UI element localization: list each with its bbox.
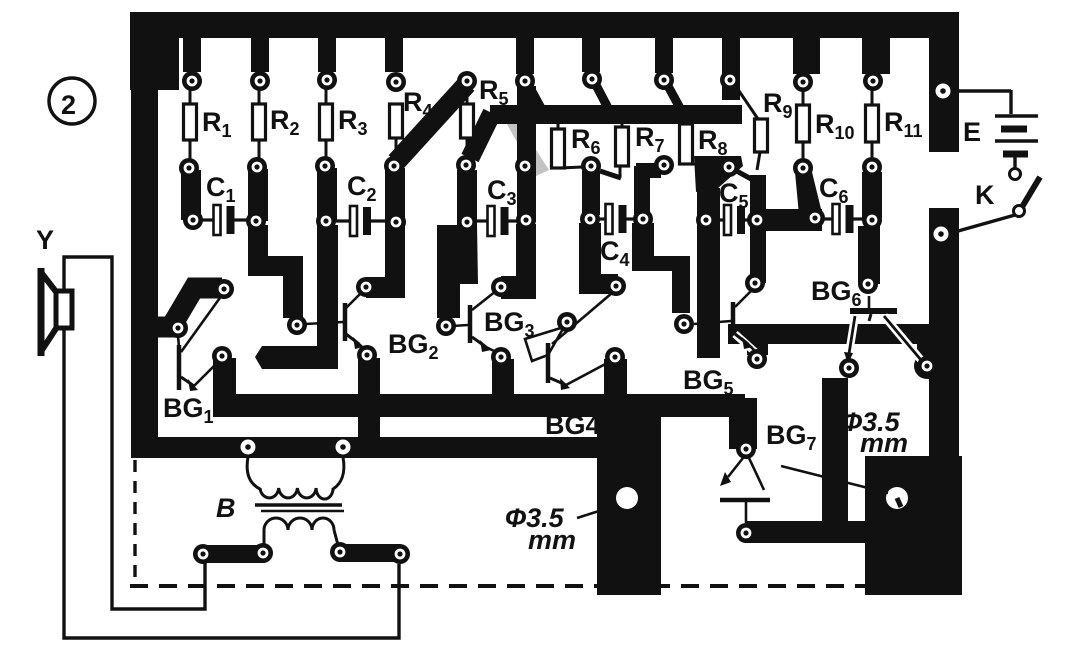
resistor R2 [253, 81, 300, 167]
wire to C5 left and supply [697, 188, 720, 358]
transistor BG2 [305, 290, 439, 363]
wire speaker top to transformer [64, 257, 205, 609]
wire R3 to C2 [317, 168, 337, 221]
capacitor C1 [201, 172, 248, 235]
mounting hole pad lower-right [865, 456, 962, 595]
pad node transformer top-left [241, 440, 256, 455]
wire C4 left to BG4 collector pad [579, 223, 618, 294]
transistor BG6 [811, 276, 921, 364]
resistor R1 [184, 81, 232, 168]
svg-text:Y: Y [36, 225, 54, 255]
transistor BG3 [452, 291, 535, 352]
resistor R4 [390, 87, 433, 164]
wire R5 to C3 to BG3 base [437, 170, 478, 318]
resistor R9 [737, 88, 793, 170]
wire R4 column to C2 and BG2 collector [366, 168, 405, 298]
resistor R5 [461, 75, 509, 165]
capacitor C5 [714, 178, 749, 235]
pad node transformer top-right [336, 440, 351, 455]
svg-text:2: 2 [61, 90, 76, 120]
battery E [952, 90, 1038, 180]
wire diagonal R4 to R5 [396, 84, 467, 162]
wire BG7 emitter bottom trace [746, 521, 866, 543]
transformer B [216, 457, 344, 545]
board top supply trace [130, 12, 959, 38]
speaker У [36, 225, 72, 356]
wire C4 right to BG5 base [632, 223, 690, 313]
wire R9 to BG5 collector [750, 175, 766, 283]
svg-text:mm: mm [860, 428, 908, 458]
resistor R10 [797, 82, 855, 165]
wire transformer output pads left [203, 545, 263, 563]
mounting hole pad lower-middle [597, 394, 661, 595]
wire speaker bottom to transformer [64, 328, 399, 638]
wire stub BG6 right to supply [914, 344, 940, 379]
wire stub BG3 emitter to ground [492, 359, 514, 400]
pad node on switch trace [934, 227, 949, 242]
board top-left corner pour [130, 12, 179, 90]
bottom ground trace to transformer [134, 437, 600, 458]
capacitor C4 [598, 204, 635, 270]
transistor BG5 [683, 289, 755, 399]
wire BG6 emitter to BG7 collector [822, 378, 848, 522]
wire BG1 base arm to border [148, 288, 222, 327]
capacitor C6 [819, 173, 864, 234]
transistor BG1 [163, 295, 222, 427]
wire stub BG7 collector [729, 398, 757, 449]
wire stubs top supply trace [183, 34, 890, 100]
svg-text:BG4: BG4 [545, 410, 601, 440]
mid horizontal base trace [470, 105, 742, 158]
battery feed trace E [929, 12, 959, 152]
resistor R7 [600, 122, 665, 178]
resistor R6 [552, 124, 601, 168]
solder pads (nodes) [168, 69, 937, 564]
wire C6 right to R11 [862, 172, 882, 218]
svg-text:K: K [975, 180, 995, 210]
dashed board outline [130, 460, 865, 586]
wire stub BG5 emitter to supply [747, 344, 768, 355]
transistor BG4 [525, 293, 612, 440]
capacitor C2 [334, 171, 388, 236]
label hole diameter right [781, 407, 908, 493]
wire R1 to C1 [181, 170, 201, 220]
transistor BG7 [720, 420, 817, 523]
switch K [951, 177, 1040, 233]
wire R7 pad arm to C4 right [634, 163, 661, 214]
wire top pad column to C3 right [517, 86, 536, 222]
svg-text:B: B [216, 493, 236, 523]
resistor R3 [320, 80, 368, 166]
right border trace lower [929, 208, 959, 595]
wire stub BG2 emitter to ground [358, 358, 380, 437]
pad node on battery trace [936, 84, 951, 99]
capacitor C3 [475, 175, 518, 236]
wire C5 to C6 trace [750, 209, 822, 231]
wire transformer output pads right [340, 544, 400, 562]
svg-text:E: E [963, 117, 981, 147]
wire C1 to BG2 base staircase [248, 225, 303, 318]
wire R10 to C6 [795, 172, 822, 215]
wire R6 R7 junction to C4 [582, 171, 600, 215]
right horizontal supply trace [728, 324, 959, 344]
wire C6 to BG6 collector [858, 226, 880, 284]
wire R8 R9 junction pour [694, 156, 753, 192]
svg-text:mm: mm [528, 525, 576, 555]
wire R2 to C1 [248, 169, 268, 221]
long emitter ground trace [213, 394, 745, 417]
wire stub BG4 emitter to ground [604, 359, 627, 400]
board left border trace [131, 34, 158, 458]
figure number 2 [49, 78, 95, 124]
smudge artifact [499, 110, 549, 176]
wire stubs to mid trace [529, 85, 680, 108]
resistor R11 [866, 81, 923, 164]
wire stub BG1 emitter to ground [213, 358, 236, 400]
label hole diameter left [505, 503, 599, 555]
wire C3 to BG3 collector [501, 224, 536, 299]
resistor R8 [680, 124, 728, 164]
wire C2 to stub arm [255, 225, 338, 369]
